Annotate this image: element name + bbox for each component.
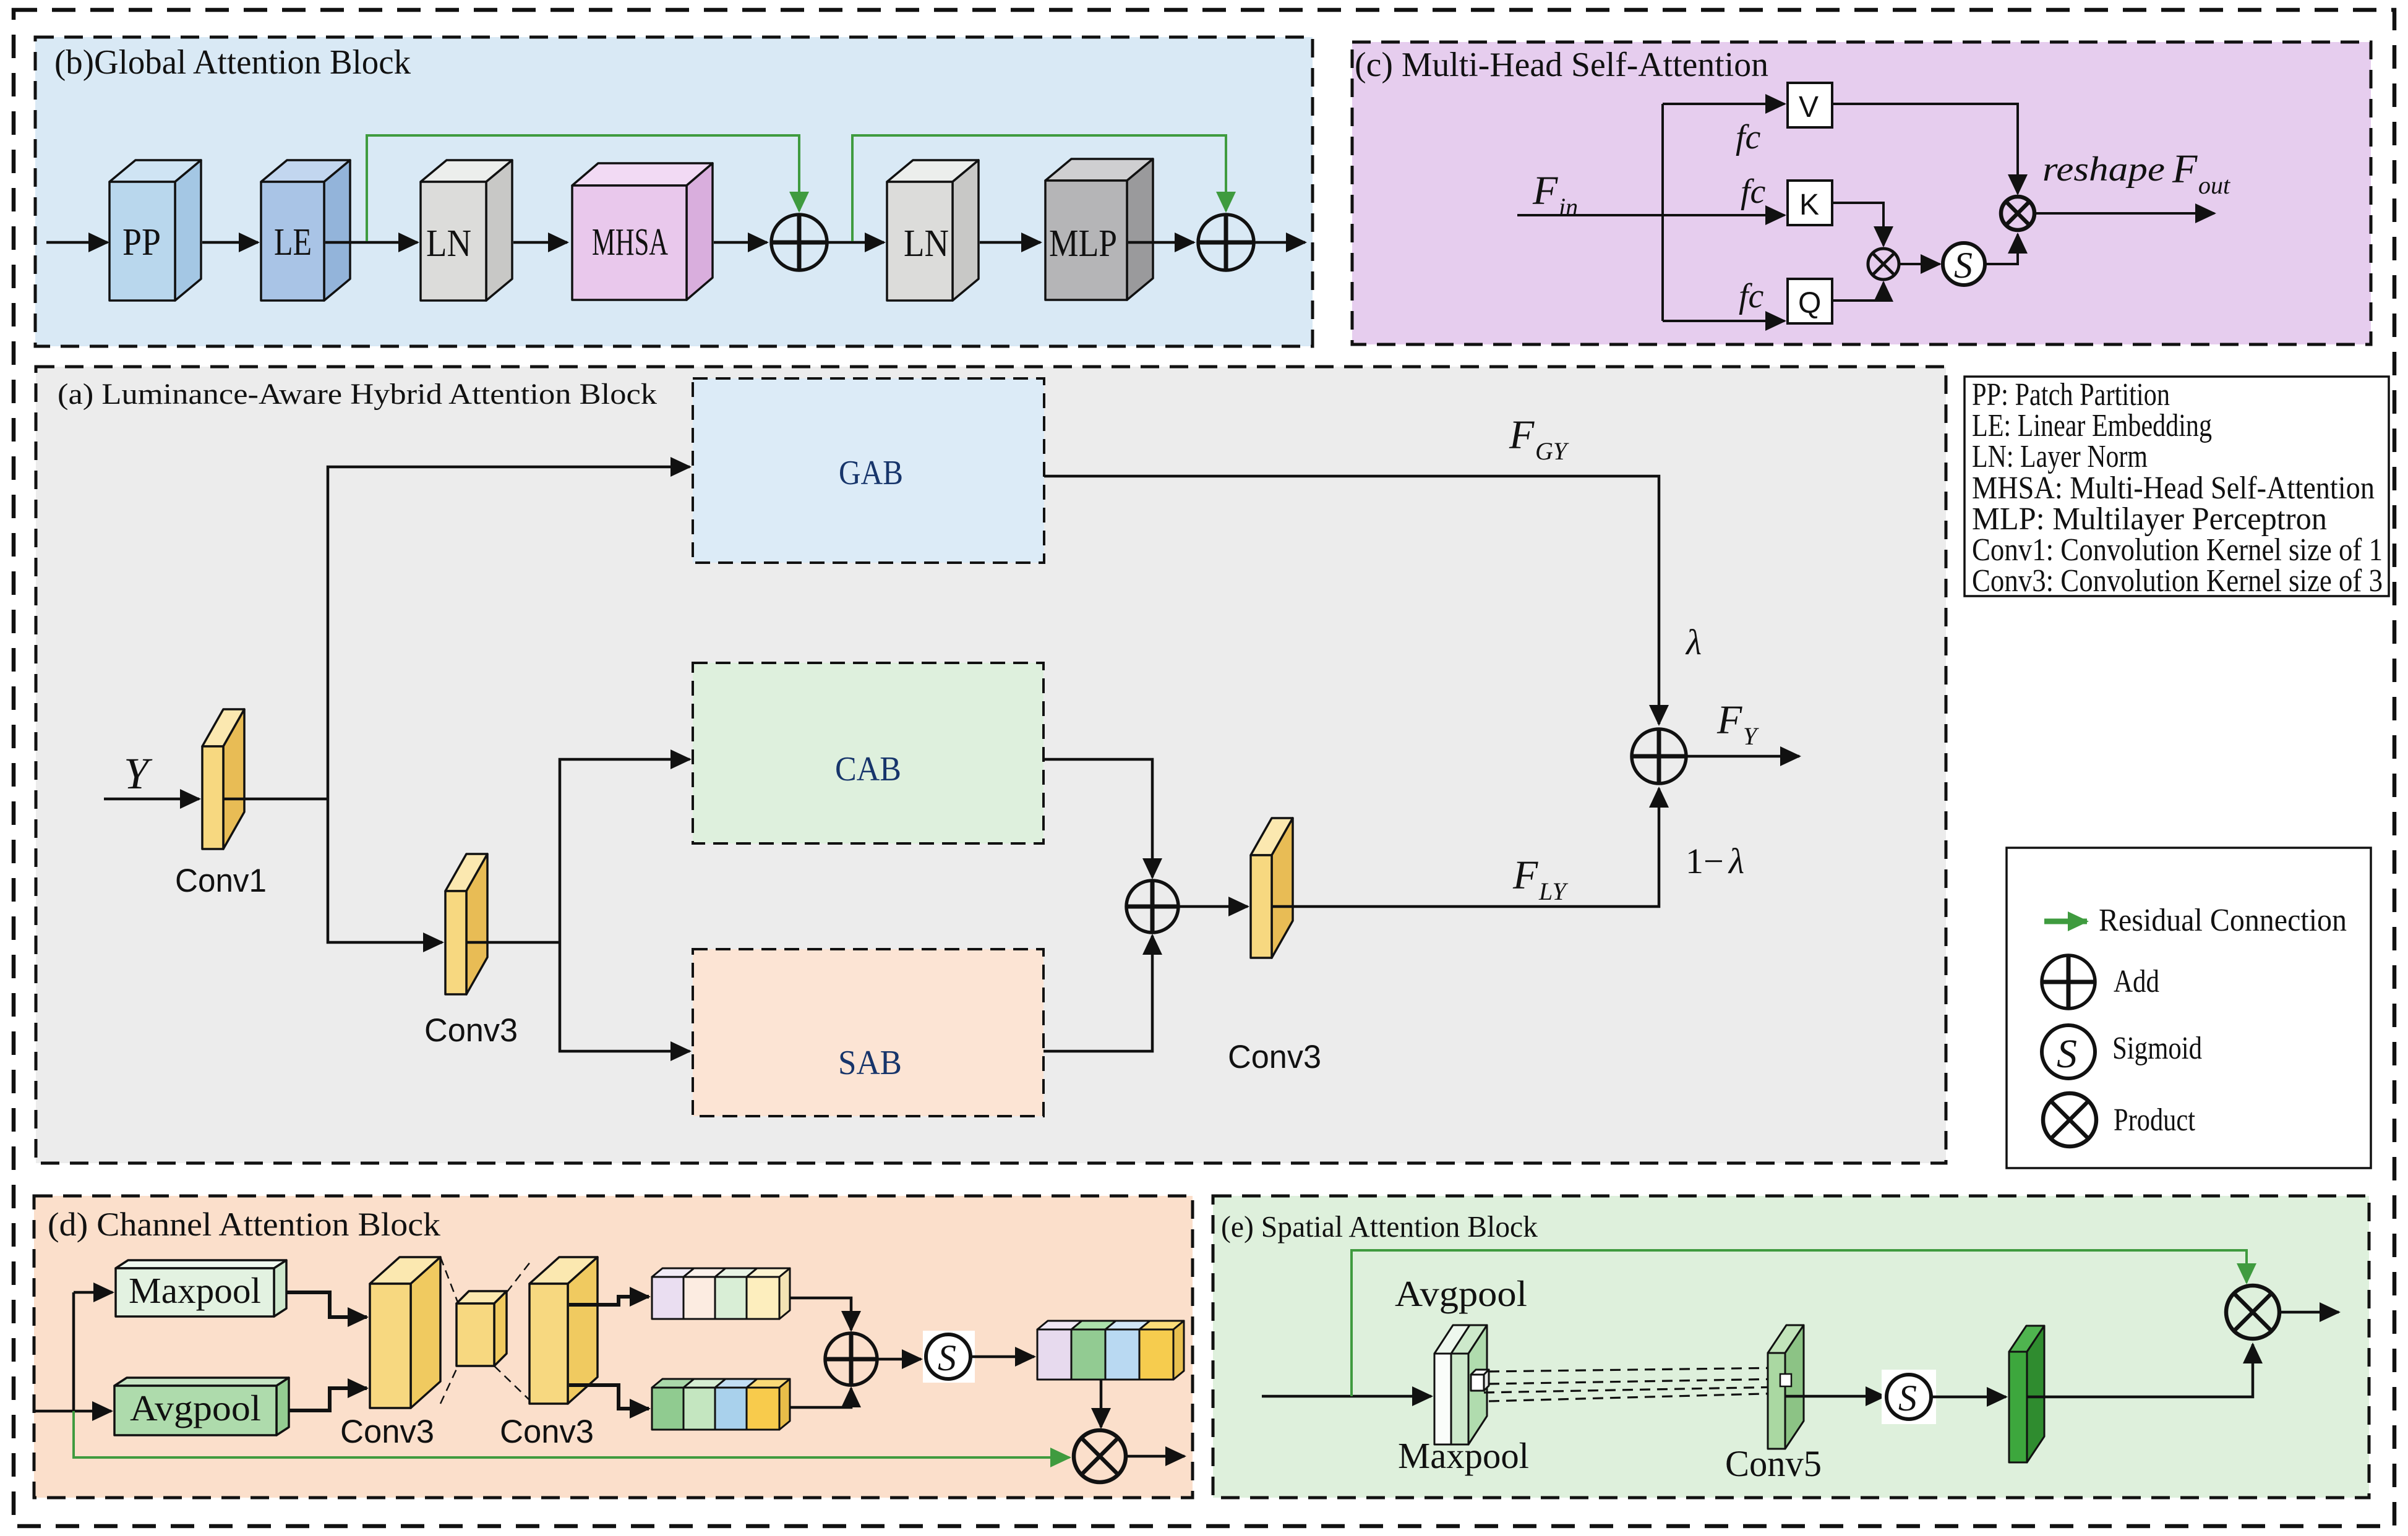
legend product symbol — [2043, 1093, 2096, 1146]
dashed kernel projection lines — [1484, 1368, 1786, 1401]
svg-text:Conv3: Convolution Kernel size: Conv3: Convolution Kernel size of 3 — [1972, 563, 2383, 599]
svg-text:CAB: CAB — [835, 750, 901, 788]
svg-text:K: K — [1799, 189, 1819, 221]
wire product4 output — [2279, 1311, 2339, 1314]
wire to Avgpool — [74, 1410, 111, 1413]
svg-text:fc: fc — [1736, 118, 1761, 156]
residual green wire (e) — [1352, 1250, 2247, 1396]
wire add5 to sigmoid2 — [877, 1358, 921, 1361]
CAB dashed box — [693, 663, 1043, 843]
svg-text:F: F — [1509, 412, 1535, 458]
residual connection 2 (green) — [852, 135, 1226, 241]
result channel bar — [1037, 1321, 1184, 1380]
wire add2 output — [1254, 241, 1305, 244]
svg-text:Conv3: Conv3 — [1228, 1039, 1321, 1075]
svg-text:LE: LE — [274, 221, 312, 263]
product circle 2 — [2001, 197, 2034, 230]
wire branch to Q — [1663, 320, 1785, 322]
wire branch vertical — [1661, 104, 1664, 321]
box Q — [1788, 279, 1832, 323]
svg-text:F: F — [2172, 147, 2198, 192]
legend box — [2007, 848, 2371, 1168]
wire top bar to add5 — [790, 1298, 851, 1330]
block PP — [109, 160, 201, 301]
svg-text:(d) Channel Attention Block: (d) Channel Attention Block — [48, 1206, 440, 1243]
svg-text:Conv3: Conv3 — [340, 1414, 434, 1450]
wire Fin to K — [1517, 214, 1785, 216]
wire K to product1 — [1832, 203, 1883, 245]
Conv3 box d1 — [370, 1257, 440, 1408]
svg-text:F: F — [1716, 698, 1742, 743]
wire CAB to add3 — [1043, 759, 1152, 877]
svg-text:1−: 1− — [1686, 841, 1724, 881]
svg-text:MLP: Multilayer Perceptron: MLP: Multilayer Perceptron — [1972, 501, 2327, 537]
svg-text:MLP: MLP — [1049, 223, 1117, 265]
wire product2 output Fout — [2034, 212, 2214, 215]
svg-text:LN: Layer Norm: LN: Layer Norm — [1972, 439, 2148, 474]
SAB dashed box — [693, 949, 1043, 1116]
add circle 4 — [1632, 729, 1686, 783]
bottleneck dashed connectors 1 — [440, 1257, 458, 1302]
svg-text:LY: LY — [1538, 877, 1568, 905]
block MHSA — [572, 163, 713, 300]
svg-text:GY: GY — [1535, 437, 1569, 465]
box V — [1788, 83, 1832, 127]
Conv3 slab — [445, 854, 487, 994]
wire sigmoid to product2 — [1985, 234, 2018, 264]
wire branch to V — [1663, 103, 1785, 105]
wire Conv3d2 to bottom bar — [569, 1385, 649, 1409]
legend add symbol — [2042, 955, 2095, 1009]
product circle 4 — [2226, 1286, 2279, 1339]
wire Y to Conv1 — [104, 798, 199, 801]
green attention slab — [2009, 1326, 2044, 1462]
svg-text:LN: LN — [904, 223, 949, 265]
svg-text:(e) Spatial Attention Block: (e) Spatial Attention Block — [1221, 1210, 1538, 1244]
svg-text:out: out — [2198, 171, 2230, 199]
Avgpool box — [114, 1378, 289, 1435]
svg-text:Conv1: Conv1 — [175, 863, 267, 899]
panel (c) Multi-Head Self-Attention — [1352, 42, 2371, 344]
svg-text:S: S — [1898, 1378, 1917, 1419]
svg-text:(c) Multi-Head Self-Attention: (c) Multi-Head Self-Attention — [1355, 46, 1768, 84]
wire Conv3 to branch2 — [466, 941, 560, 944]
wire sigmoid3 to green slab — [1931, 1396, 2006, 1399]
wire PP to LE — [202, 241, 258, 244]
wire branch up to GAB — [328, 467, 690, 799]
wire Conv1 to branch — [223, 798, 328, 801]
wire product1 to sigmoid — [1899, 263, 1940, 265]
svg-text:S: S — [1954, 245, 1973, 286]
wire LN to MHSA — [513, 241, 567, 244]
definitions key box — [1965, 377, 2389, 596]
wire input to pool stack — [1262, 1395, 1431, 1398]
sigmoid circle 2 — [923, 1331, 975, 1383]
wire sigmoid2 to result bar — [970, 1355, 1034, 1359]
wire branch down to Conv3 — [328, 799, 442, 942]
wire product3 output — [1126, 1455, 1185, 1458]
block LE — [261, 160, 350, 301]
Maxpool box — [116, 1260, 286, 1316]
kernel cube on stack — [1471, 1370, 1489, 1391]
svg-text:LE: Linear Embedding: LE: Linear Embedding — [1972, 408, 2212, 443]
wire V to product2 — [1832, 104, 2018, 194]
svg-text:λ: λ — [1728, 841, 1744, 881]
add circle 5 — [825, 1333, 877, 1385]
svg-text:Maxpool: Maxpool — [129, 1270, 261, 1311]
legend sigmoid symbol — [2042, 1025, 2095, 1078]
svg-text:Product: Product — [2114, 1103, 2195, 1138]
panel (e) Spatial Attention Block — [1213, 1196, 2369, 1498]
wire LN2 to MLP — [980, 241, 1040, 244]
svg-text:fc: fc — [1741, 173, 1766, 211]
wire FGY from GAB to add4 — [1044, 476, 1659, 724]
svg-text:reshape: reshape — [2042, 150, 2165, 189]
add circle 1 — [771, 215, 827, 270]
svg-text:Residual Connection: Residual Connection — [2099, 903, 2347, 938]
Conv5 slab — [1768, 1325, 1804, 1449]
block LN2 — [887, 160, 979, 301]
wire SAB to add3 — [1043, 936, 1152, 1051]
wire Q to product1 — [1832, 283, 1883, 301]
add circle 3 — [1126, 881, 1178, 932]
svg-text:Avgpool: Avgpool — [1395, 1273, 1527, 1314]
wire add3 to Conv3b — [1178, 905, 1248, 908]
wire add1 to LN2 — [827, 241, 884, 244]
wire FY output — [1686, 755, 1799, 758]
svg-text:Avgpool: Avgpool — [130, 1388, 261, 1428]
wire Maxpool to Conv3d1 — [286, 1292, 367, 1317]
wire green slab to product4 — [2027, 1344, 2253, 1397]
Conv3 box d2 — [529, 1257, 598, 1404]
wire input branch vertical — [72, 1292, 75, 1411]
svg-text:S: S — [2057, 1031, 2077, 1077]
wire LE to LN — [325, 241, 418, 244]
small conv box — [456, 1291, 507, 1366]
wire Conv5 to sigmoid3 — [1785, 1395, 1885, 1398]
sigmoid circle — [1943, 243, 1985, 285]
svg-text:Conv5: Conv5 — [1725, 1443, 1822, 1484]
block LN — [421, 160, 512, 301]
panel (a) Luminance-Aware Hybrid Attention Block — [36, 367, 1946, 1163]
wire input — [35, 1410, 74, 1413]
Conv1 slab — [202, 709, 244, 849]
product circle 1 — [1868, 249, 1899, 279]
bottom channel bar — [652, 1379, 790, 1430]
wire FLY from Conv3b to add4 — [1272, 788, 1659, 907]
definitions text — [1972, 377, 2383, 599]
svg-text:Conv3: Conv3 — [500, 1414, 594, 1450]
wire branch2 down to SAB — [560, 942, 690, 1051]
wire branch2 up to CAB — [560, 759, 690, 942]
panel (d) Channel Attention Block — [34, 1196, 1193, 1498]
svg-text:GAB: GAB — [839, 454, 903, 492]
svg-text:Maxpool: Maxpool — [1398, 1435, 1529, 1476]
svg-text:Conv1: Convolution Kernel size: Conv1: Convolution Kernel size of 1 — [1972, 532, 2383, 568]
svg-text:F: F — [1512, 853, 1538, 898]
svg-text:F: F — [1532, 168, 1558, 213]
panel (b) Global Attention Block — [35, 37, 1313, 346]
residual connection 1 (green) — [367, 135, 799, 241]
product circle 3 — [1074, 1430, 1126, 1482]
svg-text:(a) Luminance-Aware Hybrid Att: (a) Luminance-Aware Hybrid Attention Blo… — [58, 378, 657, 411]
Avgpool/Maxpool stack — [1434, 1325, 1487, 1444]
svg-text:SAB: SAB — [838, 1044, 902, 1082]
svg-text:PP: Patch Partition: PP: Patch Partition — [1972, 377, 2170, 412]
svg-text:λ: λ — [1685, 622, 1702, 662]
wire Conv3d2 to top bar — [569, 1297, 649, 1305]
wire Avgpool to Conv3d1 — [289, 1388, 367, 1410]
add circle 2 — [1198, 215, 1254, 270]
svg-text:V: V — [1799, 91, 1819, 124]
svg-text:Sigmoid: Sigmoid — [2112, 1031, 2202, 1066]
svg-text:Y: Y — [1743, 722, 1759, 750]
svg-text:Y: Y — [124, 749, 153, 798]
GAB dashed box — [693, 378, 1044, 563]
residual green wire (d) — [74, 1411, 1069, 1457]
kernel square on Conv5 — [1780, 1374, 1791, 1386]
svg-text:LN: LN — [426, 223, 471, 265]
Conv3b slab — [1251, 818, 1293, 958]
svg-text:MHSA: MHSA — [592, 221, 668, 263]
wire MLP to add2 — [1128, 241, 1194, 244]
box K — [1788, 181, 1832, 225]
svg-text:Q: Q — [1798, 287, 1821, 320]
svg-text:MHSA: Multi-Head Self-Attentio: MHSA: Multi-Head Self-Attention — [1972, 471, 2375, 506]
top channel bar — [652, 1268, 790, 1319]
svg-text:S: S — [938, 1338, 956, 1378]
svg-text:fc: fc — [1739, 277, 1764, 315]
legend residual connection arrow — [2044, 919, 2087, 924]
wire input to PP — [46, 241, 108, 244]
svg-text:in: in — [1559, 193, 1578, 221]
wire result bar down to product3 — [1100, 1380, 1103, 1427]
svg-text:Conv3: Conv3 — [424, 1012, 518, 1049]
wire bottom bar to add5 — [790, 1388, 851, 1407]
block MLP — [1045, 159, 1153, 300]
bottleneck dashed connectors 2 — [507, 1261, 531, 1292]
sigmoid circle 3 — [1882, 1370, 1936, 1424]
svg-text:(b)Global Attention Block: (b)Global Attention Block — [54, 43, 411, 82]
svg-text:PP: PP — [122, 221, 161, 263]
svg-text:Add: Add — [2114, 964, 2159, 999]
wire MHSA to add1 — [714, 241, 767, 244]
wire to Maxpool — [74, 1291, 113, 1294]
